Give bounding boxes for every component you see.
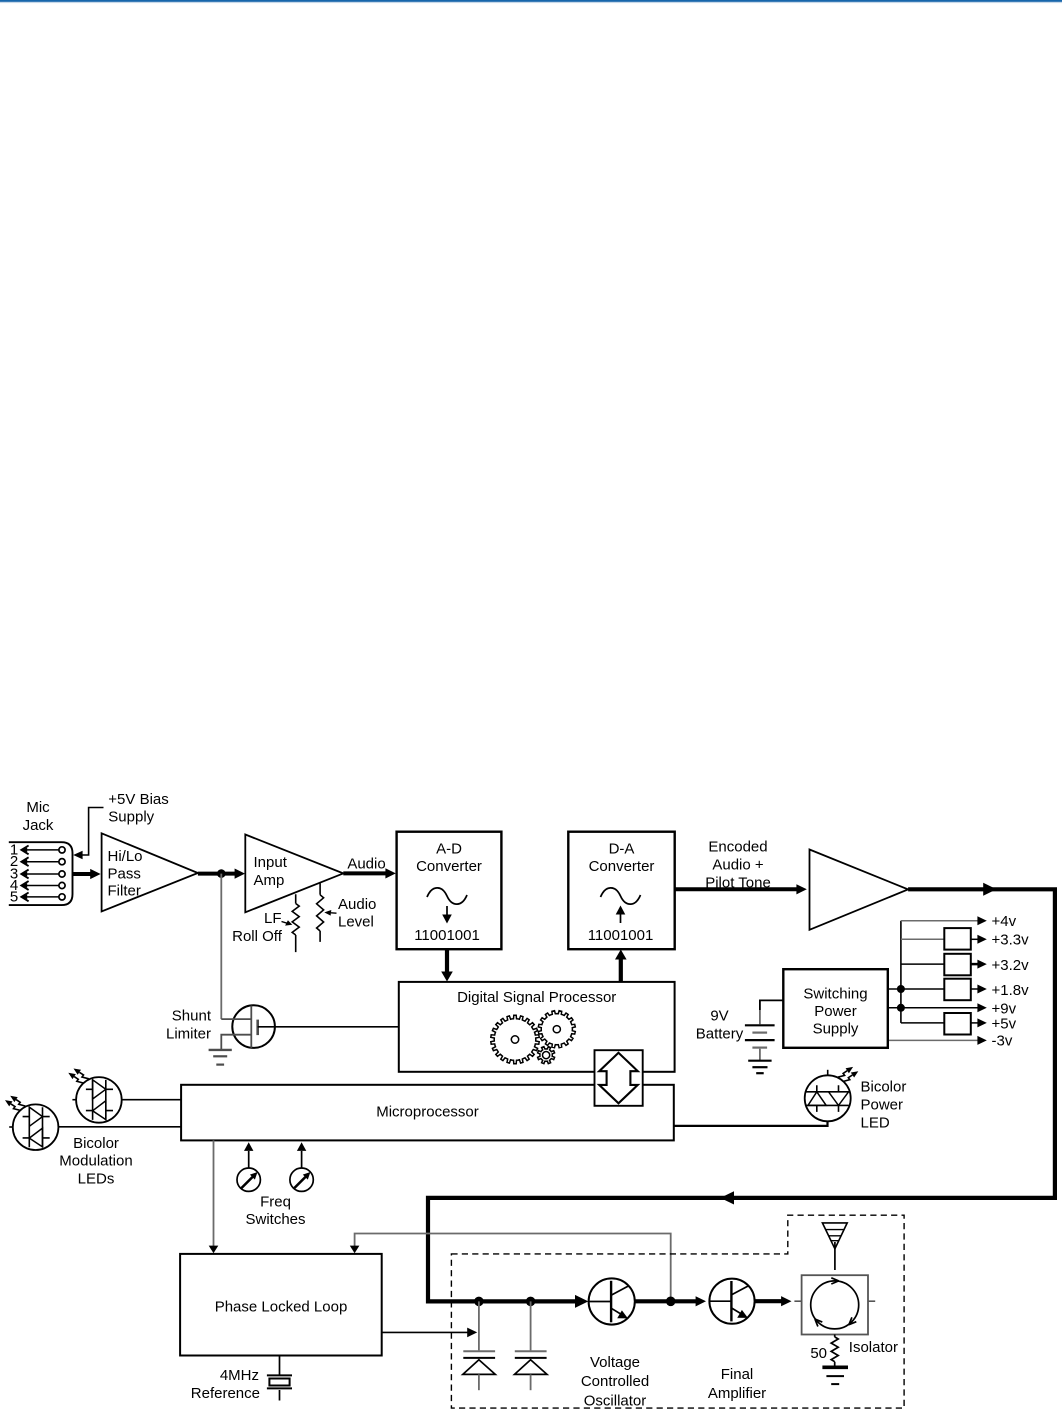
svg-text:Converter: Converter (416, 858, 482, 875)
svg-text:+5v: +5v (992, 1015, 1017, 1032)
svg-text:Controlled: Controlled (581, 1373, 649, 1390)
wire microprocessor to PLL (213, 1140, 215, 1246)
LED D1 bicolor modulation (upper) (68, 1069, 121, 1123)
battery B1 (745, 1024, 775, 1026)
svg-text:Modulation: Modulation (59, 1153, 132, 1170)
svg-text:Hi/Lo: Hi/Lo (108, 848, 143, 865)
digital signal processor box (399, 982, 675, 1072)
isolator U3 (802, 1275, 868, 1334)
svg-text:Switching: Switching (803, 985, 867, 1002)
wire LED D1 to microprocessor (122, 1099, 181, 1101)
svg-text:Pass: Pass (108, 865, 141, 882)
wire D-A to power amp (Encoded Audio + Pilot Tone) (705, 839, 771, 892)
svg-text:+5V Bias: +5V Bias (108, 791, 168, 808)
ground under shunt limiter (209, 1049, 232, 1051)
svg-text:Phase Locked Loop: Phase Locked Loop (215, 1298, 348, 1315)
wire S2 to microprocessor (301, 1151, 303, 1168)
svg-text:4MHz: 4MHz (220, 1367, 259, 1384)
wire filter to input amp (198, 872, 236, 876)
node +1.8v junction (897, 985, 905, 993)
gear 2 (538, 1011, 575, 1048)
svg-text:Isolator: Isolator (849, 1339, 898, 1356)
wire input amp to A-D (Audio) (347, 855, 385, 872)
svg-text:Microprocessor: Microprocessor (376, 1104, 479, 1121)
svg-text:Switches: Switches (245, 1211, 305, 1228)
transistor Q3 final amplifier (709, 1279, 754, 1324)
svg-text:Shunt: Shunt (172, 1008, 212, 1025)
svg-text:11001001: 11001001 (414, 927, 480, 944)
svg-text:+4v: +4v (992, 913, 1017, 930)
wire +5V bias supply to jack (82, 808, 104, 856)
mic jack pin numbers 1-5 (10, 841, 18, 905)
svg-text:Audio +: Audio + (712, 856, 764, 873)
regulator box +1.8v (888, 988, 945, 990)
svg-text:LEDs: LEDs (78, 1171, 115, 1188)
resistor Audio Level (317, 883, 324, 942)
varactor D4 (478, 1301, 480, 1350)
power rail bus vertical (900, 921, 902, 1023)
svg-text:Limiter: Limiter (166, 1025, 211, 1042)
wire +9v rail (888, 1007, 979, 1009)
A-D converter U1 (397, 832, 502, 950)
switch S1 freq (237, 1168, 260, 1191)
svg-text:Final: Final (721, 1366, 754, 1383)
wire PLL to varactors (382, 1331, 469, 1333)
wire VCO feedback to PLL (355, 1234, 671, 1300)
wire VCO to final amp (636, 1299, 698, 1303)
top blue header rule (0, 0, 1062, 4)
microprocessor box (181, 1085, 674, 1141)
svg-text:D-A: D-A (609, 840, 635, 857)
mic jack connector body (9, 842, 73, 905)
wire final amp to isolator (755, 1299, 783, 1303)
crystal Y1 4MHz reference (279, 1356, 281, 1376)
svg-text:Oscillator: Oscillator (584, 1392, 647, 1409)
svg-text:-3v: -3v (992, 1032, 1013, 1049)
op-amp power amplifier (810, 850, 909, 930)
wire junction to shunt limiter (220, 874, 222, 1020)
wire battery to supply (760, 1000, 783, 1010)
svg-text:Encoded: Encoded (708, 839, 767, 856)
svg-text:Mic: Mic (26, 799, 50, 816)
wire LED D2 to microprocessor (58, 1126, 181, 1128)
ground under resistor (822, 1366, 848, 1370)
transistor Q2 VCO (589, 1278, 635, 1324)
wire jack to filter (thick arrow) (73, 872, 92, 876)
+5V bias supply label (108, 791, 168, 826)
svg-text:Reference: Reference (191, 1385, 260, 1402)
node varactor bus junction 1 (474, 1297, 484, 1307)
dashed VCO/PA enclosure (451, 1215, 904, 1408)
ground under battery (748, 1060, 771, 1062)
svg-text:Voltage: Voltage (590, 1354, 640, 1371)
gear 3 (538, 1047, 555, 1064)
transistor Q1 shunt limiter (MOSFET) (166, 1008, 212, 1043)
svg-text:Supply: Supply (813, 1020, 859, 1037)
svg-text:+1.8v: +1.8v (992, 982, 1030, 999)
wire microprocessor to power LED (674, 1121, 828, 1126)
DSP-microprocessor bus notch box (595, 1050, 643, 1106)
svg-text:+3.3v: +3.3v (992, 932, 1030, 949)
wire DSP to D-A (thick up arrow) (619, 958, 623, 982)
svg-text:Audio: Audio (347, 855, 385, 872)
svg-text:50: 50 (810, 1345, 827, 1362)
svg-text:Converter: Converter (589, 858, 655, 875)
switching power supply box (783, 969, 888, 1048)
svg-text:Filter: Filter (108, 883, 141, 900)
svg-text:Supply: Supply (108, 809, 154, 826)
node varactor bus junction 2 (526, 1297, 536, 1307)
svg-text:Audio: Audio (338, 896, 376, 913)
battery 9V label (696, 1008, 744, 1043)
svg-text:LF: LF (264, 910, 282, 927)
svg-text:Freq: Freq (260, 1193, 291, 1210)
bidirectional bus arrow (599, 1053, 638, 1104)
varactor D5 (530, 1301, 532, 1350)
svg-text:Jack: Jack (23, 817, 54, 834)
svg-text:11001001: 11001001 (588, 927, 654, 944)
svg-text:Input: Input (254, 854, 288, 871)
LED D3 bicolor power (805, 1067, 859, 1121)
op-amp Input Amp (245, 835, 343, 913)
wire shunt limiter gate to DSP (258, 1026, 399, 1028)
wire +4v rail (901, 920, 979, 922)
svg-text:Digital Signal Processor: Digital Signal Processor (457, 989, 616, 1006)
D-A converter U2 (568, 832, 674, 950)
node junction at filter output (217, 869, 226, 878)
op-amp Hi/Lo Pass Filter (102, 833, 198, 911)
svg-text:9V: 9V (710, 1008, 728, 1025)
antenna (822, 1223, 847, 1249)
freq switches label (245, 1193, 305, 1228)
svg-text:Roll Off: Roll Off (232, 928, 283, 945)
svg-text:Bicolor: Bicolor (861, 1078, 907, 1095)
svg-text:Power: Power (861, 1096, 904, 1113)
wire S1 to microprocessor (248, 1151, 250, 1168)
gear 1 (491, 1015, 539, 1064)
svg-text:Power: Power (814, 1003, 857, 1020)
wire -3v rail (888, 1039, 979, 1041)
regulator box +3.3v (901, 938, 944, 940)
switch S2 freq (290, 1168, 313, 1191)
mic jack label (23, 799, 54, 834)
resistor LF Roll Off (292, 894, 299, 952)
svg-text:Battery: Battery (696, 1026, 744, 1043)
wire A-D to DSP (thick down arrow) (445, 949, 449, 973)
LED D2 bicolor modulation (lower) (5, 1096, 58, 1150)
voltage controlled oscillator label (581, 1354, 649, 1409)
svg-text:Level: Level (338, 913, 374, 930)
svg-text:Amp: Amp (254, 872, 285, 889)
wire amplifier output feedback loop (thick) (428, 889, 1055, 1301)
node VCO output junction (666, 1297, 676, 1307)
final amplifier label (708, 1366, 766, 1402)
phase locked loop box (180, 1254, 382, 1356)
regulator box +5v (901, 1022, 944, 1024)
svg-text:Amplifier: Amplifier (708, 1385, 766, 1402)
mic jack pin contacts and arrows (21, 846, 65, 902)
svg-text:+3.2v: +3.2v (992, 957, 1030, 974)
bicolor modulation LEDs label (59, 1135, 132, 1188)
svg-text:LED: LED (861, 1114, 890, 1131)
svg-text:Bicolor: Bicolor (73, 1135, 119, 1152)
node +9v junction (897, 1004, 905, 1012)
svg-text:A-D: A-D (436, 840, 462, 857)
regulator box +3.2v (901, 963, 944, 965)
resistor R1 50 ohm (831, 1335, 838, 1368)
bicolor power LED label (861, 1078, 907, 1131)
svg-text:5: 5 (10, 888, 18, 905)
